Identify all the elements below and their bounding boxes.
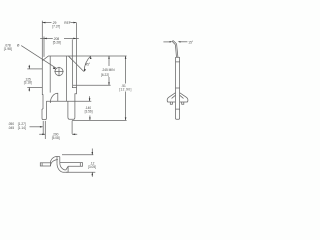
svg-text:[3.18]: [3.18]: [24, 81, 32, 85]
svg-text:[6.22]: [6.22]: [101, 73, 109, 77]
svg-text:[5.08]: [5.08]: [52, 136, 60, 140]
svg-text:15°: 15°: [188, 41, 194, 45]
svg-text:[5.28]: [5.28]: [53, 41, 61, 45]
svg-text:[1.14]: [1.14]: [18, 126, 26, 130]
svg-text:[3.05]: [3.05]: [88, 165, 96, 169]
svg-text:[12.90]: [12.90]: [119, 88, 132, 92]
svg-text:45°: 45°: [85, 62, 91, 66]
svg-text:.045: .045: [8, 126, 14, 130]
svg-text:REF: REF: [64, 21, 70, 25]
svg-text:[7.37]: [7.37]: [52, 25, 60, 29]
svg-text:.245 MIN: .245 MIN: [102, 68, 116, 72]
svg-text:Ø: Ø: [17, 44, 20, 48]
svg-text:[1.98]: [1.98]: [4, 47, 12, 51]
svg-text:[3.56]: [3.56]: [85, 110, 93, 114]
